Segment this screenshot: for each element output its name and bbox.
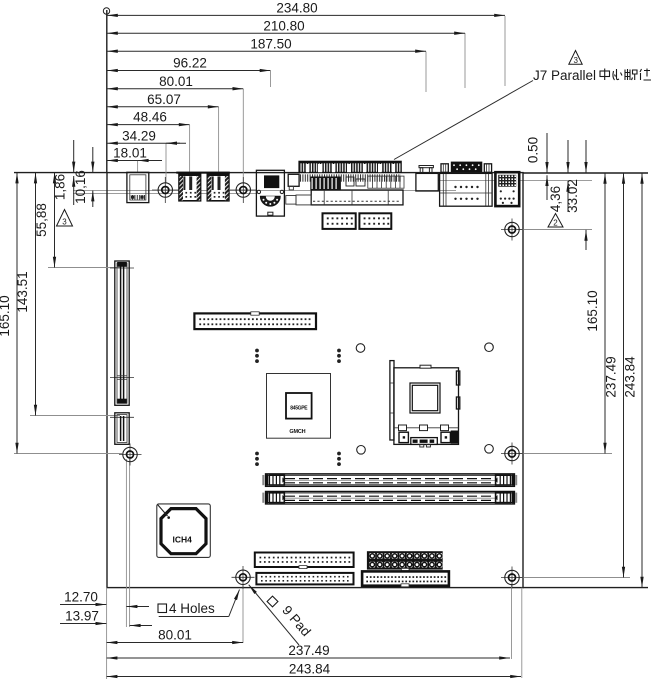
- IDC header J4: [359, 213, 391, 229]
- dimension 18.01: [107, 146, 162, 161]
- jumper JP3: [255, 452, 259, 466]
- parallel port body below edge: [286, 174, 404, 205]
- mounting hole G: [501, 567, 524, 589]
- connector USB1: [179, 173, 201, 201]
- svg-text:65.07: 65.07: [147, 92, 181, 107]
- left dim extension lines: [14, 453, 122, 455]
- label J7 Parallel: [394, 68, 651, 160]
- svg-text:243.84: 243.84: [623, 356, 638, 398]
- dimension 34.29: [107, 128, 186, 143]
- dimension 237.49 bottom: [107, 643, 510, 658]
- datum circle: [103, 8, 109, 14]
- svg-text:10,16: 10,16: [73, 170, 88, 204]
- svg-text:1,86: 1,86: [53, 174, 68, 200]
- dimension 13.97 bottom: [60, 609, 152, 626]
- svg-text:55,88: 55,88: [34, 203, 49, 237]
- connector bottom right 2: [362, 571, 449, 586]
- right edge extension down: [521, 588, 523, 678]
- IDC header J3: [323, 213, 356, 229]
- svg-text:80.01: 80.01: [158, 628, 192, 643]
- svg-text:3: 3: [62, 218, 67, 227]
- connector USB2: [207, 173, 229, 201]
- svg-text:4,36: 4,36: [548, 186, 563, 212]
- label 9 Pad: [249, 585, 314, 645]
- dimension 55.88: [34, 173, 55, 268]
- dimension 48.46: [107, 110, 190, 125]
- svg-text:GMCH: GMCH: [289, 429, 305, 435]
- dimension 33.02: [565, 140, 586, 250]
- bottom hole extension lines: [125, 459, 127, 627]
- connector VGA/COM DB: [440, 162, 493, 207]
- svg-text:143.51: 143.51: [15, 271, 30, 312]
- svg-text:237.49: 237.49: [604, 356, 619, 397]
- dimension 12.70 bottom: [60, 590, 149, 607]
- svg-text:165.10: 165.10: [0, 295, 12, 336]
- dimension 165.10 right: [585, 173, 605, 454]
- revision triangle 3 top: [569, 51, 582, 66]
- mounting hole C: [119, 444, 142, 466]
- board outline: [107, 173, 523, 588]
- dimension 10.16: [73, 147, 93, 207]
- ATX power connector: [367, 551, 443, 571]
- dimension 1.86: [53, 140, 74, 205]
- IDE connector: [194, 312, 316, 329]
- DIMM slot 2: [262, 491, 517, 504]
- bottom edge extension right: [523, 587, 648, 589]
- jumper JP2: [337, 349, 341, 363]
- connector J7 parallel port pin strip: [299, 161, 401, 172]
- dimension 187.50: [107, 36, 426, 51]
- DIMM slot 1: [262, 474, 517, 487]
- jumper JP1: [255, 349, 259, 363]
- connector bottom left 2: [256, 573, 353, 585]
- svg-text:ICH4: ICH4: [173, 535, 193, 545]
- svg-text:18.01: 18.01: [113, 146, 147, 161]
- dimension 80.01 bottom: [107, 628, 243, 643]
- svg-text:187.50: 187.50: [250, 36, 291, 51]
- svg-text:13.97: 13.97: [65, 609, 99, 624]
- svg-text:80.01: 80.01: [159, 74, 193, 89]
- hole circle b: [485, 343, 494, 352]
- dimension 210.80: [107, 18, 465, 33]
- hole circle c: [357, 446, 366, 455]
- dimension 0.50 right: [526, 133, 548, 200]
- USB shield lip: [176, 172, 230, 174]
- hole circle d: [485, 445, 494, 454]
- connector J1 PS/2: [127, 172, 149, 202]
- top edge extension left: [14, 172, 107, 174]
- svg-text:165.10: 165.10: [585, 290, 600, 331]
- jumper JP4: [337, 452, 341, 466]
- svg-text:3: 3: [573, 56, 578, 65]
- mounting hole E: [501, 219, 524, 241]
- mounting hole B: [230, 177, 257, 203]
- CPU socket U2: [390, 361, 460, 447]
- right dim extension lines: [517, 229, 592, 231]
- revision triangle 2 right: [548, 214, 563, 228]
- dimension 237.49 right: [604, 173, 624, 578]
- svg-text:2: 2: [553, 219, 558, 228]
- svg-text:4 Holes: 4 Holes: [169, 601, 215, 616]
- svg-text:34.29: 34.29: [122, 128, 156, 143]
- connector audio J2: [256, 170, 284, 216]
- connector row centerline: [73, 189, 456, 191]
- hole circle a: [356, 344, 365, 353]
- chip ICH4 U3: [157, 504, 211, 558]
- svg-text:12.70: 12.70: [64, 590, 98, 605]
- svg-text:0.50: 0.50: [526, 137, 541, 163]
- svg-text:33.02: 33.02: [565, 179, 580, 213]
- PCI slot: [110, 261, 134, 444]
- svg-text:96.22: 96.22: [173, 56, 207, 71]
- left edge extension up (datum line): [106, 10, 108, 173]
- svg-text:243.84: 243.84: [289, 662, 331, 677]
- dimension 65.07: [107, 92, 219, 107]
- dimension 80.01: [107, 74, 243, 89]
- dimension 143.51: [15, 173, 36, 416]
- dimension 243.84 bottom: [107, 662, 521, 677]
- chip GMCH U1: [267, 374, 331, 439]
- top edge extension right: [523, 172, 648, 174]
- svg-text:210.80: 210.80: [263, 18, 304, 33]
- svg-text:237.49: 237.49: [288, 643, 329, 658]
- mounting hole A: [152, 177, 179, 203]
- dimension 165.10 left: [0, 173, 17, 454]
- svg-text:48.46: 48.46: [133, 110, 167, 125]
- mounting hole F: [501, 443, 524, 465]
- mounting hole D: [232, 566, 255, 589]
- svg-text:234.80: 234.80: [276, 1, 317, 16]
- top dim extension lines dropping: [504, 16, 506, 86]
- svg-text:845GPE: 845GPE: [290, 406, 308, 412]
- dimension 234.80: [107, 1, 505, 16]
- shield line 0.50/4.36 reference: [438, 180, 592, 182]
- FDD connector: [255, 553, 354, 569]
- revision triangle 3 left: [57, 210, 73, 227]
- dimension 243.84 right: [623, 173, 643, 588]
- label 4 Holes: [158, 590, 240, 617]
- dimension 96.22: [107, 56, 271, 71]
- connector LAN: [495, 172, 519, 206]
- svg-text:J7 Parallel: J7 Parallel: [533, 68, 596, 83]
- dimension 4.36: [548, 140, 568, 212]
- left edge extension down: [106, 588, 108, 679]
- small box connector + bracket: [416, 166, 438, 192]
